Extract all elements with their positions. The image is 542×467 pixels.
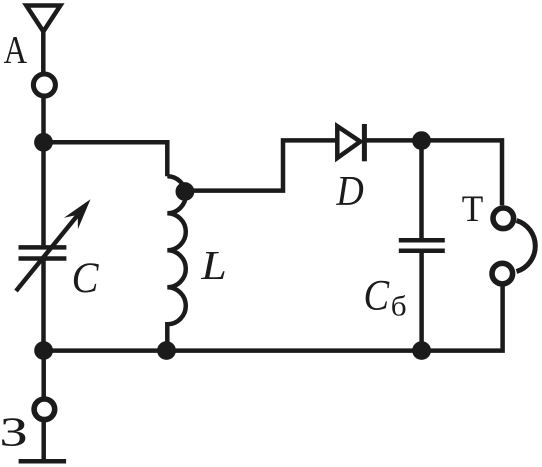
svg-text:З: З bbox=[0, 408, 28, 454]
svg-text:C: C bbox=[364, 273, 391, 320]
svg-text:A: A bbox=[4, 28, 27, 71]
svg-text:C: C bbox=[72, 255, 100, 302]
svg-text:D: D bbox=[335, 169, 363, 215]
svg-text:L: L bbox=[200, 242, 227, 288]
svg-text:б: б bbox=[391, 291, 407, 322]
svg-text:T: T bbox=[462, 189, 484, 230]
